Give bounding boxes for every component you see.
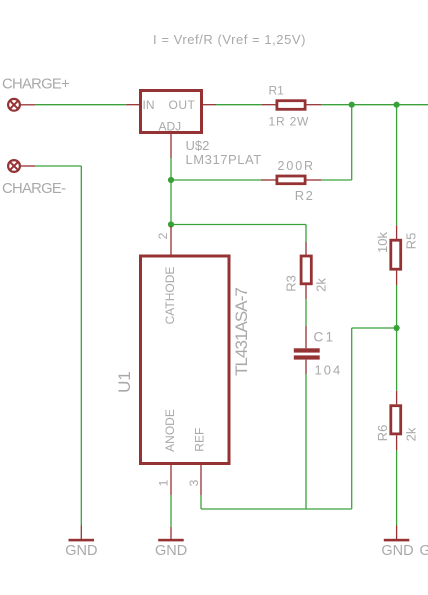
pin stub R6 top bbox=[396, 391, 398, 405]
wire ADJ down bbox=[170, 158, 172, 180]
svg-text:ANODE: ANODE bbox=[163, 409, 177, 452]
svg-text:C1: C1 bbox=[314, 330, 336, 345]
pin stub IN bbox=[126, 104, 139, 106]
wire divider node left bbox=[352, 327, 397, 329]
junction divider node bbox=[394, 325, 400, 331]
pin stub R2 left bbox=[261, 179, 276, 181]
pin stub 3 (ref) bbox=[200, 465, 202, 495]
pin stub R3 top bbox=[305, 242, 307, 255]
pad CHARGE- bbox=[8, 160, 35, 172]
wire R3 to C1 bbox=[305, 299, 307, 326]
resistor R3 body bbox=[301, 256, 311, 284]
pin stub 1 (anode) bbox=[170, 465, 172, 495]
pin stub R1 left bbox=[262, 104, 276, 106]
svg-text:U1: U1 bbox=[115, 371, 134, 393]
junction right column bbox=[394, 102, 400, 108]
regulator U$2 LM317PLAT box bbox=[141, 91, 202, 133]
pin stub R5 top bbox=[396, 225, 398, 239]
wire R6 to GND bbox=[396, 450, 398, 525]
svg-text:GND: GND bbox=[155, 543, 187, 559]
IC U1 TL431ASA-7 box bbox=[141, 256, 230, 464]
wire down to R3 bbox=[305, 225, 307, 243]
svg-text:ADJ: ADJ bbox=[159, 119, 182, 133]
junction cathode node bbox=[168, 221, 174, 227]
wire divider node to R6 bbox=[396, 328, 398, 391]
wire ref horizontal bbox=[201, 508, 352, 510]
svg-text:2: 2 bbox=[156, 232, 170, 239]
junction OUT node bbox=[349, 102, 355, 108]
wire ref down bbox=[200, 495, 202, 509]
svg-text:CHARGE+: CHARGE+ bbox=[2, 77, 69, 93]
wire ADJ node down bbox=[170, 180, 172, 225]
svg-text:2k: 2k bbox=[404, 427, 419, 441]
svg-text:GND: GND bbox=[381, 543, 413, 559]
resistor R5 body bbox=[391, 240, 401, 269]
svg-text:R5: R5 bbox=[404, 233, 419, 250]
resistor R6 body bbox=[391, 406, 401, 434]
wire R1 to right edge bbox=[321, 104, 428, 106]
wire R2 right up to OUT node bbox=[321, 179, 352, 181]
pin stub R6 bottom bbox=[396, 435, 398, 450]
svg-text:3: 3 bbox=[187, 479, 201, 486]
svg-text:TL431ASA-7: TL431ASA-7 bbox=[232, 288, 251, 376]
svg-text:OUT: OUT bbox=[169, 98, 196, 112]
wire CHARGE+ to IN bbox=[35, 104, 126, 106]
wire cathode node to R3 column bbox=[171, 224, 306, 226]
svg-text:GND: GND bbox=[65, 543, 97, 559]
svg-text:1R 2W: 1R 2W bbox=[269, 114, 310, 128]
svg-text:R2: R2 bbox=[295, 188, 314, 203]
pin stub ADJ bbox=[170, 134, 172, 158]
wire OUT to R1 bbox=[216, 104, 262, 106]
svg-text:U$2: U$2 bbox=[186, 138, 210, 153]
wire R5 to junction bbox=[396, 285, 398, 328]
svg-text:200R: 200R bbox=[278, 159, 315, 173]
pin stub R2 right bbox=[307, 179, 322, 181]
wire anode to GND bbox=[170, 495, 172, 527]
svg-text:10k: 10k bbox=[375, 232, 390, 253]
ground GND middle (anode) bbox=[170, 527, 172, 539]
svg-text:R1: R1 bbox=[269, 84, 285, 98]
wire CHARGE- horizontal bbox=[35, 165, 81, 167]
pin stub 2 (cathode) bbox=[170, 226, 172, 255]
wire right column down to R5 bbox=[396, 105, 398, 226]
svg-text:IN: IN bbox=[143, 98, 155, 112]
svg-text:2k: 2k bbox=[314, 278, 329, 292]
wire C1 bottom down bbox=[305, 374, 307, 509]
ground GND right (R6) bbox=[396, 526, 398, 540]
svg-text:I = Vref/R (Vref = 1,25V): I = Vref/R (Vref = 1,25V) bbox=[153, 32, 306, 47]
wire ADJ to R2 bbox=[171, 179, 261, 181]
svg-text:LM317PLAT: LM317PLAT bbox=[186, 152, 262, 167]
svg-text:CHARGE-: CHARGE- bbox=[2, 181, 66, 197]
junction ADJ node bbox=[168, 177, 174, 183]
resistor R1 body bbox=[277, 101, 305, 110]
resistor R2 body bbox=[277, 176, 305, 184]
wire CHARGE- vertical to GND bbox=[80, 166, 82, 526]
svg-text:1: 1 bbox=[157, 479, 171, 486]
pin stub OUT bbox=[203, 104, 216, 106]
ground GND left (CHARGE-) bbox=[80, 526, 82, 540]
pin stub R1 right bbox=[307, 104, 322, 106]
svg-text:CATHODE: CATHODE bbox=[163, 267, 177, 325]
svg-text:REF: REF bbox=[192, 428, 206, 452]
svg-text:R6: R6 bbox=[375, 425, 390, 442]
capacitor C1 bbox=[305, 326, 307, 348]
pin stub R5 bottom bbox=[396, 271, 398, 285]
svg-text:104: 104 bbox=[315, 363, 343, 378]
wire divider node down left column bbox=[351, 328, 353, 509]
pin stub R3 bottom bbox=[305, 285, 307, 299]
svg-text:GND: GND bbox=[420, 543, 428, 559]
svg-text:R3: R3 bbox=[284, 275, 299, 292]
pad CHARGE+ bbox=[8, 99, 35, 111]
